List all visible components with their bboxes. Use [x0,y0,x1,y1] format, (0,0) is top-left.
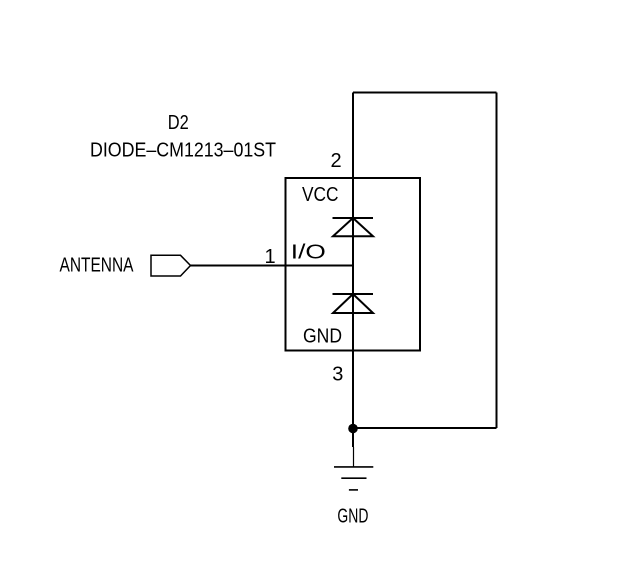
svg-text:2: 2 [331,150,342,172]
port symbol ANTENNA [151,255,191,276]
svg-text:VCC: VCC [302,184,339,206]
wire bottom horizontal [353,427,497,429]
svg-text:GND: GND [337,506,368,528]
svg-text:D2: D2 [168,112,189,134]
diode D2b (GND clamp) [333,294,374,313]
svg-text:GND: GND [303,326,342,348]
wire from ANTENNA port to pin 1 [191,265,354,267]
ground symbol [334,447,373,490]
wire right vertical [496,93,498,429]
wire pin2 up / through body / down to junction [352,93,354,448]
svg-text:I/O: I/O [291,242,326,264]
wire top horizontal [353,92,497,94]
svg-text:3: 3 [332,364,343,386]
junction dot [348,424,358,434]
svg-text:ANTENNA: ANTENNA [60,255,135,277]
svg-text:1: 1 [265,246,276,268]
component body U/D2 box [286,178,421,351]
diode D2a (VCC clamp) [333,218,374,236]
svg-text:DIODE–CM1213–01ST: DIODE–CM1213–01ST [90,140,276,162]
